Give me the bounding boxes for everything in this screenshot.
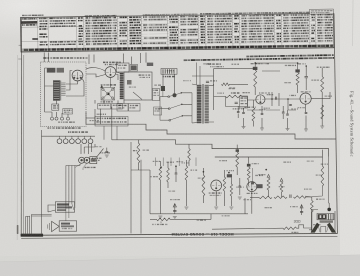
strip label xyxy=(163,76,164,78)
label under plugs xyxy=(58,122,60,123)
choke blob xyxy=(174,74,176,93)
wires loops to connector xyxy=(81,144,92,154)
speaker magnet dot xyxy=(327,208,331,212)
left frame connection stubs xyxy=(18,45,21,59)
dashed box caption xyxy=(48,127,49,129)
wire into P1 xyxy=(97,149,104,157)
speaker plug block xyxy=(119,100,121,102)
electrolytic C10 xyxy=(162,74,164,86)
field labels xyxy=(231,92,233,93)
tube V6 xyxy=(247,182,257,192)
jack J2 xyxy=(57,68,64,73)
caps row mid right xyxy=(289,105,292,106)
tall resistor R20 xyxy=(137,143,140,163)
resistor R25 xyxy=(223,177,226,191)
label above tube V2 xyxy=(103,62,105,64)
resistor R14 xyxy=(321,105,324,119)
power transformer T3 primary xyxy=(197,85,202,123)
speaker horn left wedge xyxy=(311,223,320,233)
divider line B xyxy=(112,140,329,157)
resistor R12 xyxy=(321,77,324,92)
output trans box xyxy=(59,221,76,231)
tone box xyxy=(117,63,130,72)
resistor R22 xyxy=(167,168,170,182)
resistor R29 vertical xyxy=(310,201,313,213)
resistor R30 horizontal on bottom xyxy=(283,227,297,230)
tube V1 detail xyxy=(72,70,83,81)
parts list table xyxy=(20,9,333,52)
power supply big box xyxy=(124,72,152,100)
lower amp bus xyxy=(150,170,248,214)
resistor R11 xyxy=(295,69,299,72)
lower bus wires xyxy=(131,169,150,171)
resistor R27 xyxy=(247,164,251,167)
scattered component labels xyxy=(154,85,157,86)
dashed detail box xyxy=(41,62,87,127)
schematic border frame right xyxy=(334,13,337,233)
lower amp outer box left xyxy=(130,142,132,233)
resistor R23 xyxy=(185,166,188,180)
resistor R26 xyxy=(230,184,232,196)
osc box xyxy=(240,96,248,108)
model caption (upside down) xyxy=(171,232,233,236)
resistor R13 xyxy=(252,108,255,122)
resistor R21 xyxy=(159,166,162,180)
cap C23 xyxy=(239,186,242,187)
R20 value label xyxy=(133,150,135,151)
P1 labels xyxy=(92,158,93,159)
stacked label box xyxy=(153,89,160,101)
speaker plug loops xyxy=(42,135,96,137)
speaker horn center post xyxy=(321,226,326,232)
left fold dark tick xyxy=(17,225,19,234)
grounds lower amp xyxy=(158,216,162,218)
cap C11 xyxy=(206,81,209,82)
speaker box left edge xyxy=(41,130,43,234)
schematic border frame left xyxy=(20,18,22,236)
resistor R7 horizontal xyxy=(222,83,230,86)
T3 connecting wires xyxy=(192,84,214,123)
resistor R1 detail xyxy=(52,104,59,110)
switch wires xyxy=(160,97,170,121)
relay box dark xyxy=(130,65,138,72)
wire color label box xyxy=(95,117,128,127)
output transducer triangle xyxy=(52,221,60,231)
transformer T1 primary xyxy=(53,81,59,101)
field filter loop xyxy=(226,97,248,107)
wires upper mid xyxy=(95,100,118,124)
resistor R28b xyxy=(280,178,283,181)
grounds under right components xyxy=(243,118,245,127)
detail plug pins xyxy=(52,112,68,117)
divider line C xyxy=(215,150,323,157)
speaker box right edge xyxy=(140,160,142,234)
labels near switch top xyxy=(206,63,207,64)
bottom border heavy ink blot xyxy=(21,234,43,237)
resistor R19 xyxy=(188,149,191,161)
terminal strip detail xyxy=(63,109,73,114)
labels right quadrant xyxy=(251,63,254,64)
speaker transformer lams xyxy=(317,214,334,220)
caps above grounds xyxy=(242,113,245,114)
wires to field coil xyxy=(48,205,55,212)
connector block row 1 xyxy=(98,104,111,109)
transformer T1 secondary xyxy=(61,82,65,84)
speaker SP1 frame xyxy=(312,210,336,233)
cap C20 xyxy=(175,173,178,174)
resistor R24 vertical tall xyxy=(202,175,205,196)
vibrator socket X xyxy=(101,87,115,100)
mid-right caps xyxy=(237,112,240,113)
speaker coil bar xyxy=(320,220,333,222)
junction dots lower amp xyxy=(160,167,162,169)
left verticals into divider xyxy=(95,109,101,124)
detail box wires xyxy=(45,68,54,112)
connector P1 socket xyxy=(79,157,85,163)
caption above dashed box xyxy=(43,57,46,59)
T1 core xyxy=(59,81,62,101)
speaker socket label xyxy=(68,131,69,133)
bus wires top xyxy=(214,63,298,71)
title box top right xyxy=(309,9,333,14)
divider line A xyxy=(86,124,336,139)
component stub row xyxy=(155,158,157,167)
T3 winding striations xyxy=(197,85,202,87)
wires from table to tube xyxy=(89,55,94,65)
wire tube to detail box xyxy=(86,68,105,71)
cable to frame bundle xyxy=(32,214,52,216)
connector P1 shell xyxy=(90,157,97,164)
field coil box xyxy=(55,202,74,212)
wire right of T3 xyxy=(213,84,215,110)
note text lines xyxy=(184,54,334,61)
tube V2 xyxy=(105,67,116,78)
winding bundle T2 xyxy=(120,73,124,100)
speaker horn right wedge xyxy=(327,223,336,233)
label above vibrator xyxy=(101,84,103,85)
cap C14 xyxy=(305,76,308,77)
antenna terminal strip xyxy=(161,69,177,75)
T3 secondary xyxy=(205,85,209,123)
coupling cap C22 xyxy=(227,174,232,177)
lower-left horizontal resistor R31 xyxy=(157,218,171,221)
mid-right bus segments xyxy=(247,109,280,111)
rotary switch S1 xyxy=(169,93,182,120)
V5 labels xyxy=(209,192,211,193)
wires from table into detail box xyxy=(43,53,45,63)
wires below supply xyxy=(123,53,146,65)
bottom border band xyxy=(21,233,337,235)
lower mid caption blobs xyxy=(197,220,200,221)
tube V5 xyxy=(211,180,222,191)
wires into speaker xyxy=(305,196,312,230)
coupling label xyxy=(255,175,258,176)
P1 caption xyxy=(85,167,87,168)
resistor box R5 with label xyxy=(154,107,162,115)
jack J1 xyxy=(47,68,56,73)
resistor R28 xyxy=(267,174,270,177)
resistor R10 xyxy=(253,67,258,70)
ground small left xyxy=(106,148,108,151)
T3 core xyxy=(202,84,203,124)
cap above supply xyxy=(147,63,153,66)
resistor R32 xyxy=(236,149,239,152)
label below vibrator xyxy=(100,101,102,102)
upper bus junction dots xyxy=(254,62,256,64)
tube V4 xyxy=(300,93,311,104)
top-left corner highlight xyxy=(0,0,120,50)
wires from note area to T3 xyxy=(197,63,201,85)
cap wire C25 xyxy=(252,168,254,182)
wires upper right xyxy=(247,92,279,106)
electrolytic C21 with arrow xyxy=(174,204,176,214)
electrolytic C24 xyxy=(301,205,303,215)
output RC chain xyxy=(259,196,272,199)
connector block row 2 xyxy=(117,104,128,112)
tube V3 small xyxy=(256,95,265,104)
cable run xyxy=(65,166,67,205)
